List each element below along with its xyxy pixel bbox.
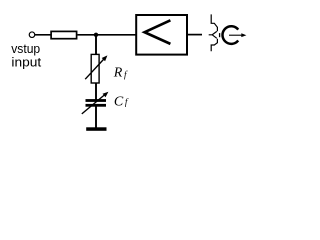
wire amp to connector [188, 34, 202, 36]
svg-text:input: input [11, 55, 41, 70]
resistor Rf (variable) body [91, 54, 99, 83]
resistor R1 [51, 31, 77, 38]
input terminal [29, 32, 35, 38]
svg-text:Rf: Rf [113, 66, 128, 81]
node junction [94, 33, 98, 37]
capacitor Cf arrow [82, 95, 105, 114]
wire Cf to ground [95, 107, 97, 129]
svg-text:Cf: Cf [114, 95, 129, 110]
display unit circle [222, 26, 238, 44]
output arrow [229, 34, 242, 36]
connector socket (female) [211, 14, 217, 51]
op-amp U1 box [136, 15, 187, 55]
ground [86, 127, 106, 131]
wire Rf to Cf [95, 83, 97, 100]
wire junction to Rf [95, 35, 97, 55]
wire resistor to amp box [78, 34, 137, 36]
op-amp U1 symbol < [145, 20, 171, 44]
connector pin tick [219, 33, 221, 37]
resistor Rf arrow [85, 58, 104, 79]
connector plug (male) [209, 31, 217, 38]
wire input to resistor [35, 34, 51, 36]
capacitor Cf top plate [86, 99, 107, 102]
capacitor Cf bottom plate [86, 104, 107, 107]
